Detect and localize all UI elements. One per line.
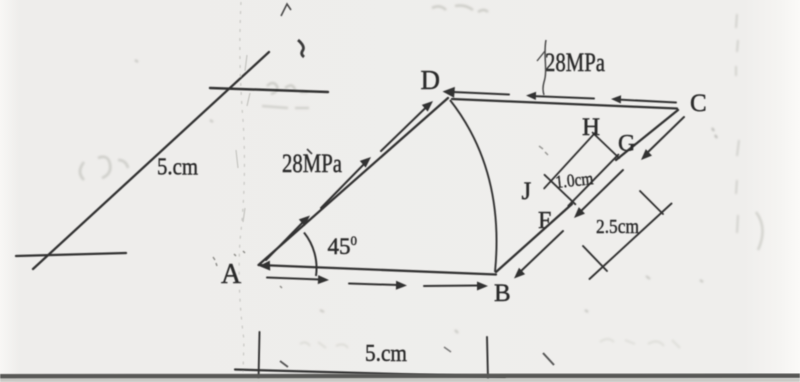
svg-text:A: A [221,259,242,290]
faint paren right [756,212,763,250]
small tick marks near bottom label [280,361,288,367]
svg-text:F: F [538,208,551,234]
faint bleedthrough top center [432,6,488,13]
svg-text:J: J [522,178,532,205]
arrow 3 on AB [424,285,479,288]
left slanted dimension line [33,52,269,269]
arrow 2 on CB [580,170,623,212]
dimension line 2.5cm [590,204,672,280]
arrow 1 on AD [266,219,306,260]
faint marks above J corner [539,146,548,155]
svg-text:5.cm: 5.cm [365,341,407,367]
leader squiggle at top 28MPa [543,40,546,95]
left dimension lower tick [16,253,126,256]
tick bottom of 2.5cm [583,246,607,271]
pen mark caret top [281,4,291,16]
specks near A [213,251,282,288]
accent above left 28MPa [307,149,312,154]
svg-text:C: C [690,90,707,117]
faint marks right margin [736,14,739,233]
faint dots scatter [135,60,703,333]
svg-text:28MPa: 28MPa [545,48,605,77]
arrow 1 on AB [267,278,320,280]
stress element side J-H (long) [544,133,595,189]
svg-text:2.5cm: 2.5cm [596,216,639,238]
bottom dimension line [235,370,505,378]
arrow 3 on CB [520,231,563,272]
svg-text:G: G [618,131,635,157]
arrow 1 on CB [647,117,684,153]
stress element side H-G (top right short) [593,133,620,159]
faint colon right of C [712,128,717,138]
stress element side G-F (long, on edge CB) [568,155,618,206]
svg-text:H: H [582,114,600,141]
stress element side F-J (bottom short) [545,175,576,205]
arrow 2 on DC [531,96,594,99]
small left arrowhead at A [259,261,270,271]
pen mark hook [298,40,304,57]
svg-text:5.cm: 5.cm [157,155,198,181]
fold crease faint [239,2,244,372]
arrow 3 on DC [617,100,676,103]
left dimension upper tick [210,88,328,92]
arrow 3 on AD [381,105,429,152]
faint bottom handwriting [300,342,348,348]
arc from D to B [450,100,497,272]
arrow 2 on AD [321,161,367,208]
faint bleedthrough numbers upper mid [267,83,308,94]
arrow 2 on AB [349,284,398,286]
scan edge dark strip at bottom [0,374,800,382]
faint bleedthrough left loops [80,157,128,180]
svg-text:B: B [494,280,511,307]
edge DC [452,99,677,109]
svg-text:1.0cm: 1.0cm [554,168,594,192]
edge AB [259,265,496,275]
bottom left tick [259,332,260,380]
tick top of 2.5cm [640,191,663,214]
edge CB upper part [616,110,678,160]
45 degree angle arc at A [304,233,317,277]
svg-text:D: D [421,65,441,95]
edge AD [259,98,449,265]
edge CB lower part [496,204,572,272]
big arrow at D on DC [453,92,509,95]
bottom right tick [487,337,488,380]
